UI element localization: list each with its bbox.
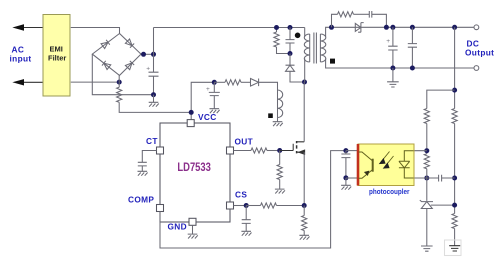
node clamp RC bottom junction — [288, 51, 293, 56]
wire left leg to LED node — [426, 124, 428, 154]
node ref junction — [452, 203, 457, 208]
resistor R12 current sense — [303, 206, 305, 216]
capacitor C8 CT — [138, 162, 147, 171]
node VCC cap junction — [212, 80, 217, 85]
diode D5 clamp — [286, 54, 305, 83]
ground TL431 — [421, 246, 433, 251]
wire output ground stub — [392, 68, 394, 82]
transformer T1 aux winding — [278, 90, 283, 118]
svg-text:photocoupler: photocoupler — [369, 189, 410, 196]
ground GND pin — [188, 234, 198, 238]
svg-text:COMP: COMP — [128, 195, 154, 205]
resistor R8 VCC feed — [225, 80, 241, 85]
svg-text:+: + — [386, 38, 390, 45]
wire LED node to TL431 — [426, 169, 428, 201]
wire pulldown to ground — [279, 180, 281, 190]
node aux phase dot — [268, 113, 273, 118]
capacitor C6 feedback — [427, 175, 455, 182]
wire EMI to bridge top vertex — [71, 28, 120, 34]
resistor R6 LED parallel — [424, 154, 429, 169]
ground boxed earth — [445, 240, 462, 256]
resistor R9 gate — [251, 148, 267, 153]
node fb cap right junction — [452, 176, 457, 181]
node gate junction — [277, 148, 282, 153]
resistor R2 clamp snubber — [274, 32, 279, 47]
svg-text:+: + — [146, 66, 150, 73]
wire startup resistor to VCC node — [119, 102, 191, 112]
node CS junction — [244, 203, 249, 208]
node snubber C top — [288, 25, 293, 30]
wire snubber R bottom to node — [277, 47, 291, 54]
wire CS node to filter resistor — [246, 205, 260, 207]
wire bridge right vertex to bulk node — [141, 53, 154, 55]
AC arrow bottom — [14, 80, 23, 85]
diode D1 top-left — [101, 40, 110, 49]
svg-text:OUT: OUT — [235, 137, 254, 147]
node divider rail junction — [452, 88, 457, 93]
node bulk+ junction — [151, 52, 156, 57]
wire AC input top lead — [17, 27, 43, 29]
terminal DC output + — [474, 25, 479, 30]
capacitor C3 output snubber — [369, 11, 372, 18]
resistor R7 divider lower — [452, 214, 457, 229]
svg-text:input: input — [10, 54, 32, 64]
resistor R10 gate pulldown — [277, 165, 282, 180]
node LED cathode junction — [424, 176, 429, 181]
wire snubber R to C — [354, 13, 370, 15]
wire secondary bottom lead / output return rail — [326, 59, 474, 69]
diode D4 bottom-right — [125, 61, 134, 70]
svg-text:LD7533: LD7533 — [177, 162, 211, 174]
capacitor C4 output electrolytic — [388, 27, 397, 68]
ground CS cap — [241, 231, 251, 235]
diode D7 VCC rectifier — [251, 79, 259, 87]
transformer T1 secondary winding — [320, 34, 325, 62]
node output cap2 bottom junction — [410, 66, 415, 71]
wire gate resistor to gate node — [267, 150, 280, 152]
pin VCC square — [187, 120, 194, 127]
pin CT square — [157, 147, 164, 154]
node output cap2 top junction — [410, 25, 415, 30]
node primary phase dot — [295, 33, 301, 39]
ground gate pulldown — [275, 189, 285, 193]
wire gate node down to pulldown — [279, 151, 281, 165]
opto phototransistor — [372, 159, 374, 172]
capacitor C2 clamp snubber — [286, 28, 295, 54]
TL431 U2 shunt regulator — [420, 200, 433, 208]
wire divider rail — [427, 90, 455, 108]
capacitor C7 VCC — [209, 82, 220, 108]
wire primary bottom lead — [304, 59, 306, 83]
node source junction — [302, 203, 307, 208]
svg-text:VCC: VCC — [198, 112, 217, 122]
node secondary top junction — [329, 25, 334, 30]
wire snubber C to rail — [372, 14, 387, 27]
opto light arrows — [381, 152, 394, 167]
terminal DC output - — [474, 66, 479, 71]
svg-text:Filter: Filter — [48, 54, 66, 63]
EMI filter box — [43, 15, 70, 97]
diode bridge diamond frame — [92, 34, 141, 76]
wire TL431 to ground — [426, 209, 428, 247]
svg-text:Output: Output — [465, 48, 494, 58]
wire AC input bottom lead — [17, 81, 43, 83]
wire bottom vertex to startup resistor — [118, 75, 120, 87]
wire resistor to diode — [241, 81, 251, 83]
diode D2 top-right — [125, 39, 134, 48]
resistor R11 CS filter — [261, 203, 277, 208]
wire MOSFET source — [303, 152, 305, 205]
wire CS pin lead — [234, 205, 247, 207]
diode D3 bottom-left — [102, 61, 111, 70]
EMI filter block — [14, 15, 70, 97]
node output cap1 bottom junction — [390, 66, 395, 71]
node snubber R top — [274, 25, 279, 30]
wire output snubber riser — [332, 14, 338, 27]
wire top rail to transformer primary — [154, 27, 305, 29]
svg-text:CT: CT — [146, 136, 158, 146]
svg-text:EMI: EMI — [50, 45, 63, 54]
transformer T1 core — [314, 33, 317, 64]
wire sense resistor to ground — [303, 231, 305, 236]
capacitor C9 CS filter — [242, 206, 251, 232]
IC U1 LD7533 body — [160, 123, 230, 222]
node secondary phase dot — [330, 59, 335, 64]
ground CT cap — [138, 171, 148, 175]
ground aux winding — [273, 122, 283, 126]
svg-text:CS: CS — [235, 190, 247, 200]
node snubber rejoin junction — [384, 25, 389, 30]
diode D6 output rectifier — [355, 23, 363, 33]
pin GND square — [189, 218, 196, 225]
wire aux to ground — [277, 118, 279, 122]
capacitor C5 output ceramic — [408, 27, 417, 68]
transformer T1 primary winding — [304, 28, 306, 37]
capacitor C10 COMP filter — [341, 151, 350, 178]
svg-text:GND: GND — [168, 222, 188, 232]
pin CS square — [227, 202, 234, 209]
node LED anode junction — [424, 148, 429, 153]
node COMP-opto junction — [343, 148, 348, 153]
wire bridge left vertex to primary ground bus — [92, 54, 153, 95]
pin COMP square — [157, 205, 164, 212]
wire EMI bottom to bridge bottom vertex — [71, 81, 119, 83]
wire diode to aux winding — [259, 82, 278, 90]
ground opto cap — [341, 185, 351, 189]
wire VCC riser — [191, 82, 214, 119]
wire bulk- to ground — [153, 95, 155, 103]
resistor R3 output snubber — [338, 12, 354, 17]
wire COMP pin drop and bottom feedback run — [160, 151, 346, 248]
wire TL431 ref line — [431, 204, 455, 206]
wire secondary top lead — [326, 27, 474, 37]
node VCC startup junction — [189, 110, 194, 115]
wire snubber branch top taps — [276, 28, 278, 33]
svg-text:+: + — [206, 86, 210, 93]
wire OUT pin to gate resistor — [234, 150, 252, 152]
ground sense resistor — [299, 235, 309, 239]
wire opto LED pins to divider leg — [414, 151, 427, 178]
wire right leg middle — [454, 124, 456, 214]
wire lower R to ground — [454, 229, 456, 246]
ground bulk cap — [149, 102, 159, 106]
wire opto emitter pin — [346, 177, 358, 179]
node feedback tap junction — [452, 25, 457, 30]
resistor R4 divider upper left — [424, 109, 429, 124]
AC arrow top — [14, 25, 23, 30]
wire filter resistor to source node — [277, 205, 305, 207]
ground output — [387, 82, 399, 87]
pin OUT square — [227, 147, 234, 154]
node output cap1 top junction — [390, 25, 395, 30]
wire emitter node to ground — [345, 178, 347, 185]
capacitor C1 bulk electrolytic — [149, 54, 159, 94]
wire VCC node to resistor — [214, 81, 225, 83]
opto LED — [399, 151, 414, 178]
transistor Q1 MOSFET — [280, 141, 305, 154]
node opto emitter junction — [343, 175, 348, 180]
wire GND pin to ground — [192, 225, 194, 234]
wire MOSFET drain — [303, 82, 305, 142]
photocoupler U3 box — [358, 144, 414, 186]
resistor R1 startup — [117, 87, 122, 102]
ground VCC cap — [210, 109, 220, 113]
node bridge bottom vertex junction — [117, 80, 122, 85]
node drain junction — [302, 80, 307, 85]
node bridge right vertex junction — [141, 52, 146, 57]
wire riser bulk node to top rail — [153, 28, 155, 55]
node bulk- junction — [151, 92, 156, 97]
wire opto collector pin — [346, 150, 358, 152]
wire feedback drop — [454, 27, 456, 108]
resistor R5 divider upper right — [452, 109, 457, 124]
wire CT pin lead — [142, 151, 156, 163]
